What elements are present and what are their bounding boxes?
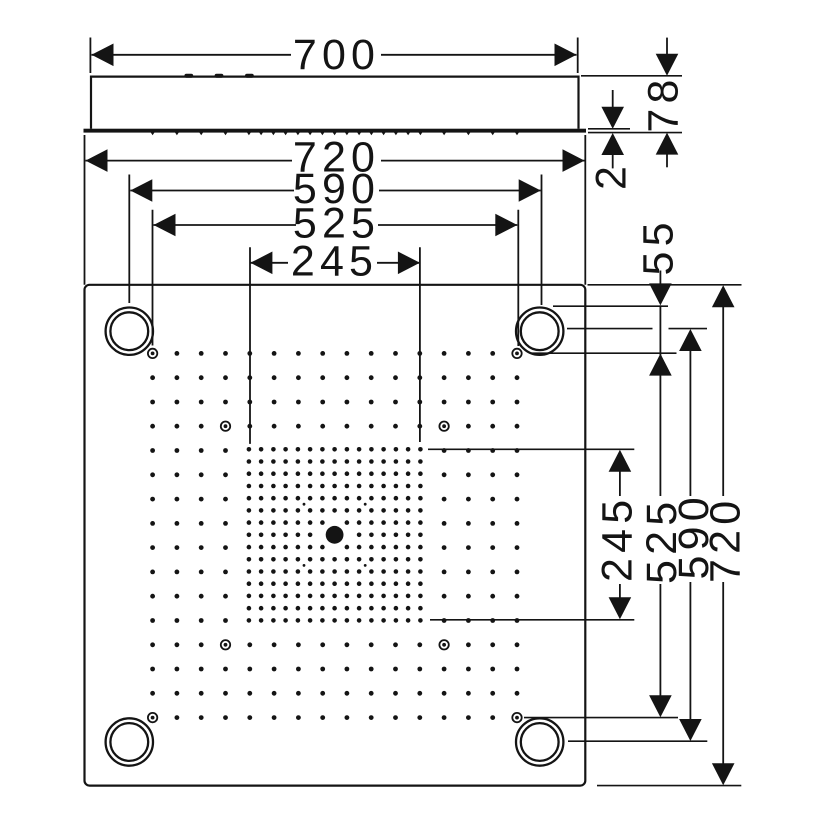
svg-text:55: 55 [635,217,683,275]
side view: spray nozzles below plate [151,132,520,135]
side view: shower head body outline [91,77,579,129]
inner dense nozzle dot grid [247,447,252,452]
dimension 590 vertical: arrows, line, label [679,329,702,351]
dimension 2: extension line [588,128,630,130]
extension line: circle centre (590 bottom) [568,740,707,742]
dimension 245 horizontal: line, arrows, label [250,262,288,264]
dimension 720 horizontal: line, arrows, label [86,160,293,162]
extension line: screw line (525 top) [530,352,677,354]
dimension 245 horizontal: extension lines down to inner nozzle field [249,247,251,444]
four small pilot nozzles [303,503,306,506]
dimension 78: arrows, line, label [666,38,668,55]
svg-text:245: 245 [594,495,642,582]
extension line: plate top edge [588,284,742,286]
dimension 78: extension lines [581,75,682,77]
dimension 525 vertical: arrows, line, label [649,354,672,376]
dimension 525 horizontal: line, arrows, label [154,224,297,226]
svg-text:2: 2 [588,166,636,190]
side view: three mounting bumps on top [184,74,193,78]
mounting screw holes (ring + centre dot) [148,349,157,358]
plan view: plate outline 720x720 [85,285,586,786]
outer nozzle dot grid [175,351,180,356]
dimension 720 horizontal: extension lines [84,135,86,285]
central large nozzle [326,526,344,544]
dimension 700: extension ticks [89,38,91,74]
bottom-left light ring [106,718,153,765]
extension line: screw line (525 bottom) [524,717,678,719]
extension line: plate bottom edge [597,785,741,787]
dimension 2: arrows, line, label [612,90,614,108]
extension line: inner field bottom (245) [430,619,634,621]
dimension 245 vertical: arrows, line, label [609,450,632,472]
dimension 700: line and arrows [92,54,292,56]
svg-text:245: 245 [291,237,378,285]
dimension 525 horizontal: extension lines down to screws [152,210,154,346]
svg-text:78: 78 [640,74,688,132]
dimension 590 horizontal: extension lines down to corner circles [128,175,130,304]
dimension 720 vertical: arrows, line, label [712,285,735,307]
extension line: circle top [553,305,668,307]
svg-text:720: 720 [702,496,750,583]
extension line: circle centre (590 top) [567,328,653,330]
dimension 590 horizontal: line, arrows, label [130,190,294,192]
side view: base plate (thick line, 720 wide) [84,129,587,133]
bottom-right light ring [516,718,563,765]
top-left light ring [106,308,153,355]
extension line: inner field top (245) [428,448,634,450]
top-right light ring [516,308,563,355]
svg-text:700: 700 [293,31,380,79]
